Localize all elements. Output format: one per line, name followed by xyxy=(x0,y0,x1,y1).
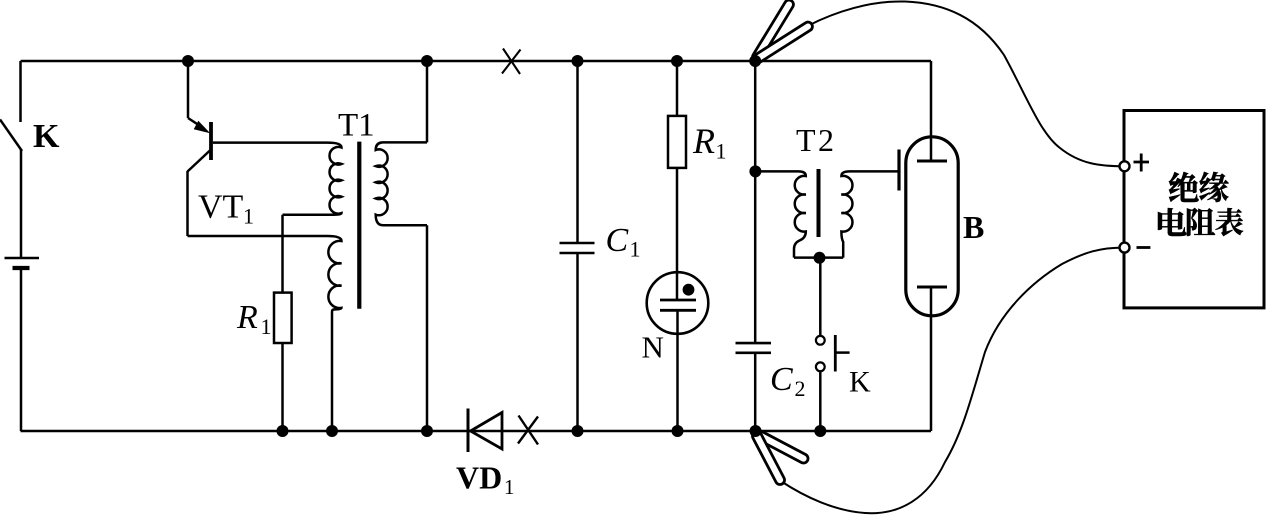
wire battery to bottom rail xyxy=(20,269,23,431)
resistor R1 (left) xyxy=(274,293,292,343)
wire switch to battery xyxy=(20,150,23,257)
switch K (push-button) xyxy=(816,258,850,431)
break mark X (bottom rail) xyxy=(518,416,538,445)
tube B anode bar xyxy=(917,160,947,163)
wire R1-left bottom xyxy=(281,343,284,431)
diode VD1 xyxy=(468,409,502,453)
svg-text:K: K xyxy=(33,118,60,155)
transformer T2 secondary winding xyxy=(841,171,897,257)
node junction C2 / T2 primary xyxy=(749,165,761,177)
svg-text:1: 1 xyxy=(630,237,641,262)
node junction bottom rail / T1 primary xyxy=(326,425,338,437)
wire T1 secondary to bottom rail xyxy=(426,225,429,431)
node junction bottom rail / switch K xyxy=(814,425,826,437)
svg-text:R: R xyxy=(692,121,715,161)
transformer T2 core xyxy=(817,169,821,237)
svg-text:B: B xyxy=(963,209,984,245)
svg-text:1: 1 xyxy=(243,204,254,229)
meter terminal - xyxy=(1120,243,1151,253)
wire bottom rail xyxy=(21,430,932,433)
svg-text:N: N xyxy=(642,330,664,365)
node junction bottom rail / C2 probe node xyxy=(750,425,762,437)
resistor R1 (middle) xyxy=(668,61,686,300)
node junction top rail / VT1 emitter xyxy=(182,55,194,67)
label 绝缘 (meter line 1) xyxy=(1169,172,1229,202)
wire probe to meter + terminal xyxy=(809,1,1125,166)
svg-text:T1: T1 xyxy=(338,108,375,144)
probe clip (bottom) xyxy=(752,430,808,485)
wire left branch upper xyxy=(19,61,22,122)
node junction bottom rail / R1-left xyxy=(277,425,289,437)
tube B grid electrode xyxy=(897,150,900,191)
svg-text:K: K xyxy=(849,366,871,399)
transformer T1 core xyxy=(357,142,361,309)
svg-text:1: 1 xyxy=(504,475,515,499)
tube B cathode bar xyxy=(917,286,947,289)
node junction top rail / R1 xyxy=(671,55,683,67)
tube B cathode lead xyxy=(930,287,933,431)
break mark X (top rail) xyxy=(502,49,521,75)
node junction bottom rail / T1 secondary xyxy=(421,425,433,437)
wire probe to meter - terminal xyxy=(782,248,1125,514)
transformer T1 secondary winding xyxy=(376,142,427,225)
svg-text:C: C xyxy=(770,361,793,398)
switch K blade xyxy=(0,120,22,152)
insulation resistance meter box xyxy=(1124,111,1264,308)
svg-text:2: 2 xyxy=(795,376,806,401)
svg-text:VD: VD xyxy=(456,460,502,496)
tube B anode lead xyxy=(930,61,933,161)
wire T1 secondary to top rail xyxy=(426,61,429,142)
svg-text:1: 1 xyxy=(261,314,272,339)
capacitor C2 xyxy=(736,61,772,431)
battery GB plates xyxy=(5,258,40,268)
label 电阻表 (meter line 2) xyxy=(1158,208,1243,236)
transformer T1 primary upper winding xyxy=(283,143,342,215)
node junction top rail / probe node xyxy=(749,55,761,67)
svg-text:T2: T2 xyxy=(796,122,837,158)
tube B envelope xyxy=(906,137,958,316)
meter terminal + xyxy=(1120,154,1150,172)
svg-text:1: 1 xyxy=(716,139,727,164)
transistor VT1 xyxy=(188,61,328,236)
node junction T2 windings / switch K xyxy=(814,252,826,264)
svg-text:C: C xyxy=(606,222,629,259)
node junction top rail / T1 secondary xyxy=(421,55,433,67)
wire top rail xyxy=(21,60,932,63)
node junction top rail / C1 xyxy=(572,55,584,67)
transformer T1 primary lower winding xyxy=(328,236,342,431)
neon lamp N xyxy=(647,272,709,431)
node junction bottom rail / C1 xyxy=(572,425,584,437)
svg-text:VT: VT xyxy=(198,189,244,226)
capacitor C1 xyxy=(560,61,595,431)
wire R1-left top xyxy=(281,215,284,293)
wire T2 bottom junction xyxy=(794,256,843,259)
probe clip (top) xyxy=(753,0,813,62)
transformer T2 primary winding xyxy=(755,171,805,257)
node junction bottom rail / lamp N xyxy=(672,425,684,437)
svg-text:R: R xyxy=(236,299,258,336)
